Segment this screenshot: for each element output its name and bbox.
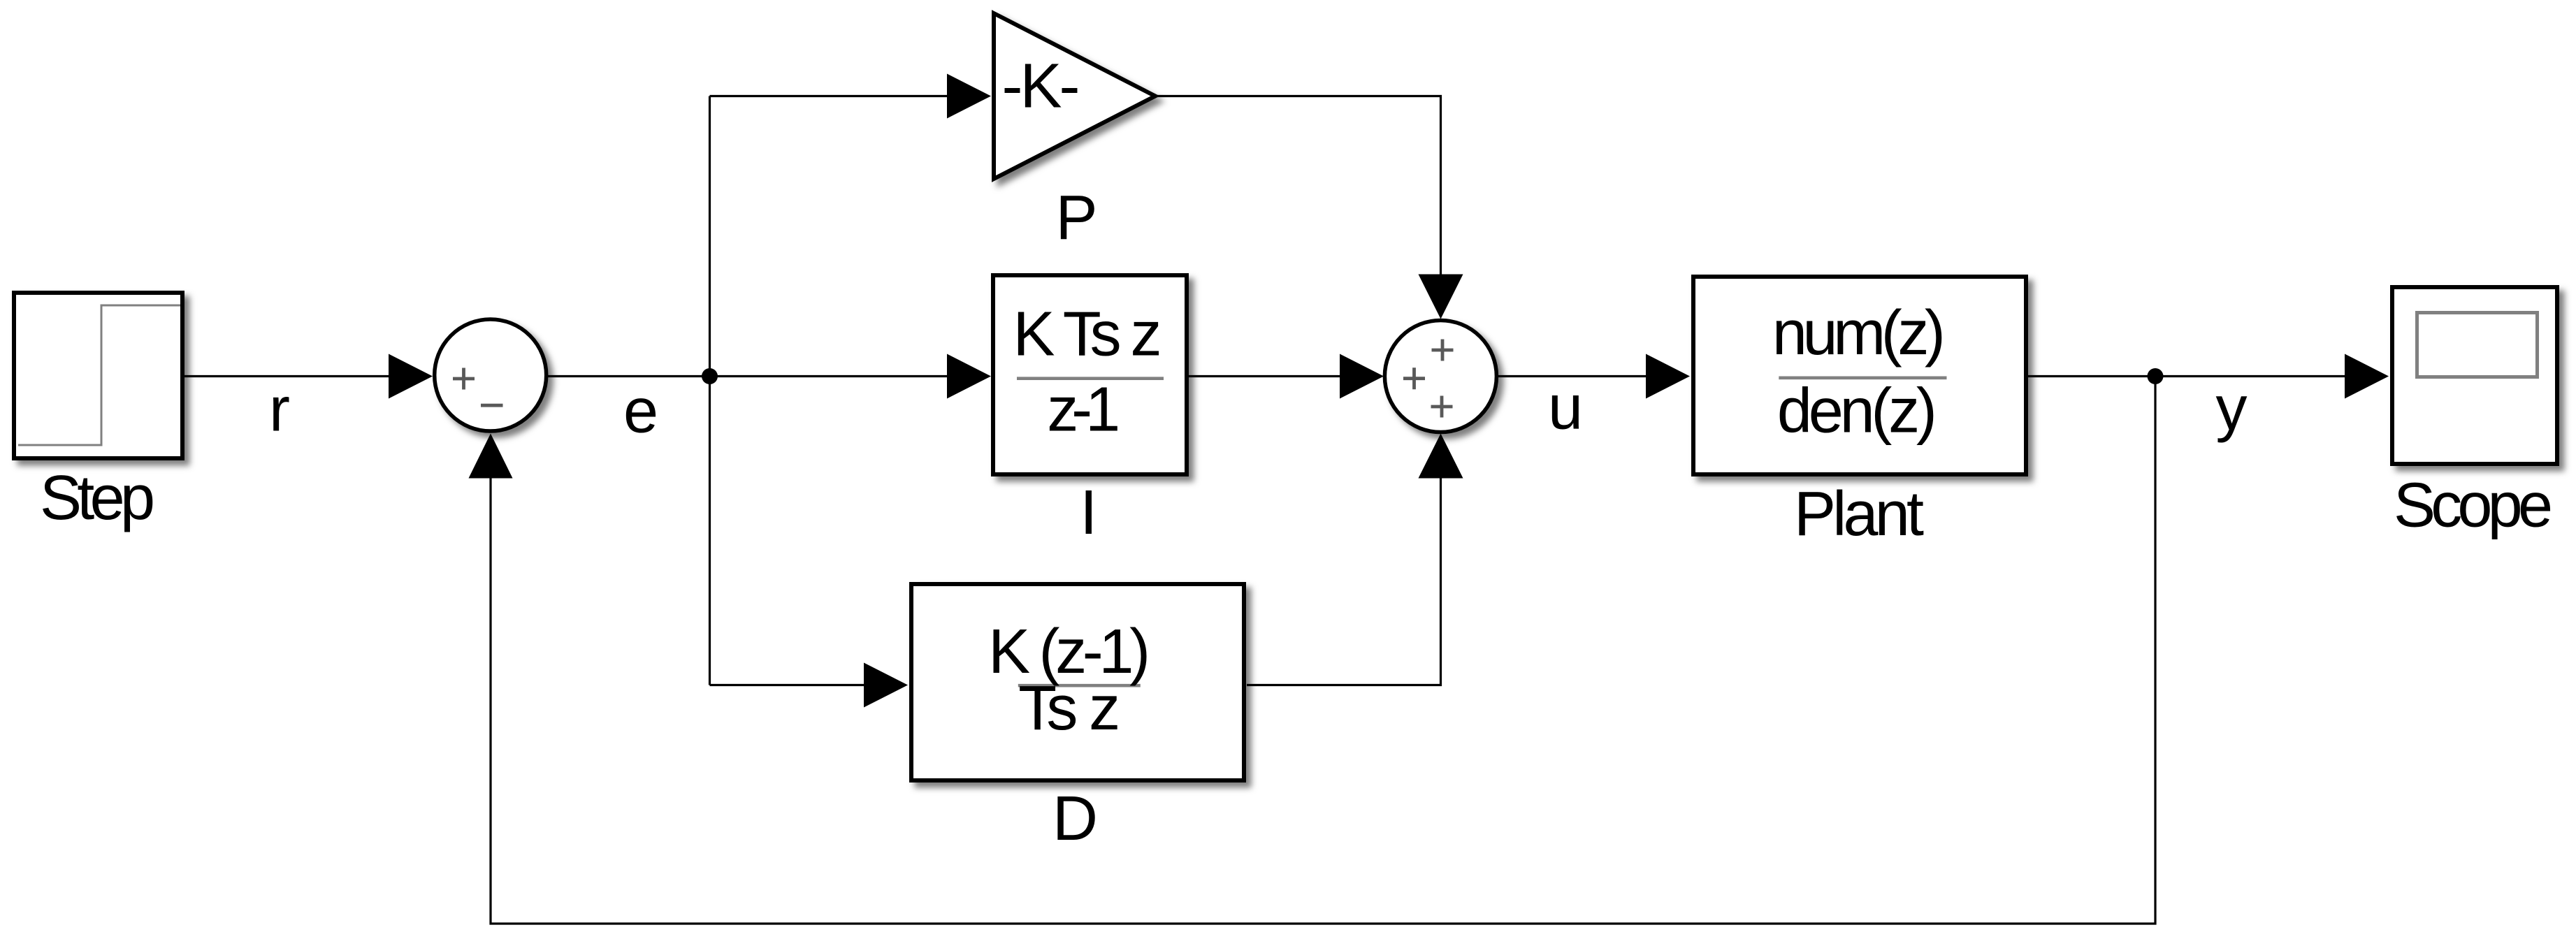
svg-text:K Ts z: K Ts z xyxy=(1013,299,1162,369)
svg-text:r: r xyxy=(269,374,290,444)
svg-text:e: e xyxy=(623,376,658,446)
svg-text:Plant: Plant xyxy=(1794,479,1924,549)
svg-text:z-1: z-1 xyxy=(1047,375,1120,445)
svg-text:-K-: -K- xyxy=(1002,52,1080,122)
svg-text:D: D xyxy=(1052,784,1098,854)
svg-text:Step: Step xyxy=(40,463,155,533)
svg-text:P: P xyxy=(1055,183,1097,253)
svg-text:I: I xyxy=(1080,478,1097,548)
svg-text:Scope: Scope xyxy=(2394,471,2553,541)
svg-text:den(z): den(z) xyxy=(1777,377,1937,446)
svg-text:u: u xyxy=(1548,372,1583,442)
svg-text:Ts z: Ts z xyxy=(1018,674,1120,743)
svg-text:y: y xyxy=(2216,374,2248,444)
svg-text:num(z): num(z) xyxy=(1772,298,1946,368)
